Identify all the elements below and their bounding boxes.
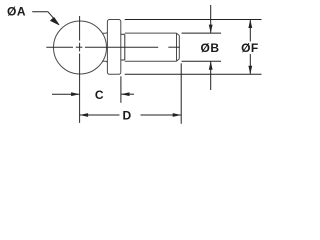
- C dimension right tail: [121, 93, 134, 95]
- svg-text:ØA: ØA: [7, 5, 26, 19]
- svg-text:ØB: ØB: [201, 41, 220, 55]
- ØB dimension line top: [210, 5, 212, 33]
- D right arrowhead (right): [173, 113, 182, 117]
- ØB bottom extension line: [182, 60, 222, 62]
- C left arrowhead (right): [71, 92, 80, 96]
- ball ØA outline: [54, 21, 107, 74]
- shank ØB bottom edge: [125, 60, 177, 62]
- shank ØB top edge: [125, 32, 177, 34]
- neck top line with fillet into flange: [102, 31, 107, 33]
- svg-text:D: D: [122, 108, 131, 122]
- ØF bottom extension line: [125, 73, 262, 75]
- ØB dimension line bottom: [210, 61, 212, 90]
- shank end face: [178, 36, 180, 59]
- ØF bottom arrowhead (down): [248, 66, 252, 75]
- ØB bottom arrowhead (up): [209, 61, 213, 70]
- flange (collar) ØF: [107, 20, 120, 75]
- leader arrowhead ØA: [51, 18, 59, 25]
- svg-text:ØF: ØF: [241, 41, 259, 55]
- leader line for ØA: [32, 12, 55, 21]
- D left arrowhead (left): [80, 113, 89, 117]
- neck bottom line with fillet into flange: [102, 61, 107, 63]
- shank chamfer bottom diagonal: [177, 59, 180, 61]
- horizontal centerline: [46, 46, 180, 48]
- shank chamfer top diagonal: [177, 33, 180, 35]
- svg-text:C: C: [95, 88, 104, 102]
- undercut groove ledge top: [121, 33, 125, 35]
- ØF top extension line: [125, 19, 262, 21]
- undercut groove edge: [124, 34, 126, 60]
- C dimension left tail: [52, 93, 80, 95]
- ØF top arrowhead (up): [248, 20, 252, 29]
- C right arrowhead (left): [121, 92, 130, 96]
- D right extension line (shank end): [180, 63, 182, 123]
- D dimension line right segment: [141, 114, 182, 116]
- vertical centerline: [79, 16, 81, 123]
- ØB top extension line: [182, 32, 222, 34]
- ØB top arrowhead (down): [209, 25, 213, 33]
- shank chamfer line: [176, 33, 178, 61]
- undercut groove ledge bottom: [121, 59, 125, 61]
- ØF dimension line bottom: [249, 54, 251, 74]
- C right extension line (collar face): [120, 76, 122, 103]
- D dimension line left segment: [80, 114, 120, 116]
- ØF dimension line top: [249, 20, 251, 42]
